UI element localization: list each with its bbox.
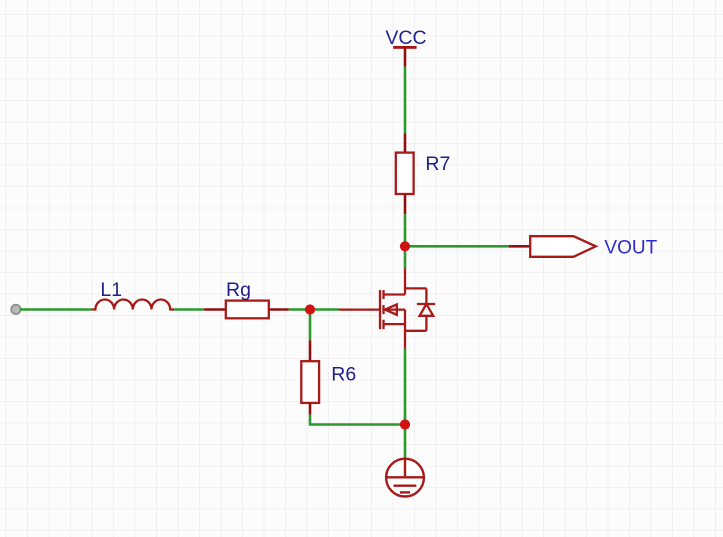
junction ground node bbox=[400, 419, 410, 429]
body arrow line bbox=[384, 308, 406, 310]
wire input to L1 bbox=[20, 308, 91, 311]
wire VCC to R7 bbox=[404, 67, 407, 134]
svg-text:R6: R6 bbox=[331, 363, 356, 385]
body diode branch bottom bbox=[425, 316, 427, 331]
gate bar bbox=[379, 290, 381, 329]
VOUT tag pin bbox=[509, 245, 531, 248]
drain horizontal bbox=[384, 293, 406, 295]
junction VOUT node bbox=[400, 241, 410, 251]
wire Rg to gate node bbox=[289, 308, 310, 311]
input pin bbox=[11, 305, 20, 314]
resistor Rg pin right bbox=[269, 308, 289, 311]
svg-text:Rg: Rg bbox=[226, 279, 251, 301]
VCC power bar bbox=[393, 46, 416, 49]
resistor R6 bbox=[301, 361, 319, 403]
wire R7 to VOUT node bbox=[404, 214, 407, 246]
resistor R7 bbox=[396, 153, 414, 194]
resistor R7 pin bottom bbox=[404, 194, 407, 214]
VOUT tag bbox=[530, 236, 596, 257]
resistor R6 pin top bbox=[309, 340, 312, 361]
channel bar bottom bbox=[382, 320, 384, 330]
body diode cathode bar bbox=[417, 303, 435, 305]
resistor R7 pin top bbox=[404, 133, 407, 152]
wire gate node to MOSFET gate bbox=[310, 308, 339, 311]
channel bar top bbox=[382, 290, 384, 299]
gate pin bbox=[339, 308, 380, 310]
body diode branch top bbox=[405, 287, 426, 289]
resistor Rg pin left bbox=[204, 308, 226, 311]
ground bbox=[386, 458, 424, 496]
junction gate node bbox=[305, 304, 315, 314]
inductor L1 bbox=[91, 300, 174, 310]
wire VOUT node to tag bbox=[405, 245, 509, 248]
wire R6 to ground node bbox=[310, 415, 405, 425]
svg-text:R7: R7 bbox=[425, 153, 450, 175]
source vertical bbox=[404, 310, 406, 331]
VCC pin stub bbox=[404, 47, 407, 67]
body arrow head bbox=[385, 304, 397, 314]
source horizontal bbox=[384, 323, 406, 325]
resistor R6 pin bottom bbox=[309, 403, 312, 415]
wire gate node down to R6 bbox=[309, 310, 312, 341]
svg-text:VCC: VCC bbox=[385, 27, 426, 49]
drain pin bbox=[404, 268, 406, 294]
resistor Rg bbox=[226, 301, 269, 319]
wire L1 to Rg bbox=[174, 308, 204, 311]
wire ground node to ground symbol bbox=[404, 425, 407, 460]
svg-text:L1: L1 bbox=[100, 279, 122, 301]
wire MOSFET source to ground node bbox=[404, 349, 407, 425]
transistor M1 (NMOS with body diode) bbox=[339, 268, 436, 348]
body diode triangle bbox=[420, 304, 434, 316]
channel bar middle bbox=[382, 305, 384, 314]
wire VOUT node to MOSFET drain bbox=[404, 246, 407, 268]
source pin bbox=[404, 331, 406, 349]
svg-text:VOUT: VOUT bbox=[604, 237, 657, 258]
